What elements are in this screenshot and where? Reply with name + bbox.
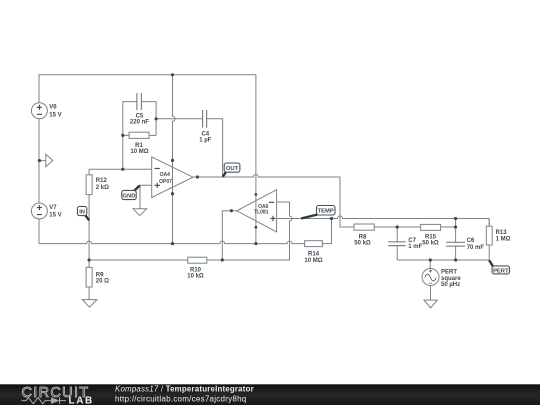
svg-text:R10: R10 bbox=[190, 268, 202, 274]
svg-text:http://circuitlab.com/ces7ajcd: http://circuitlab.com/ces7ajcdry8hq bbox=[115, 395, 246, 404]
svg-text:50 kΩ: 50 kΩ bbox=[354, 241, 371, 247]
svg-text:R14: R14 bbox=[308, 252, 320, 258]
svg-text:IN: IN bbox=[79, 209, 85, 215]
svg-text:R1: R1 bbox=[135, 143, 143, 149]
svg-text:V6: V6 bbox=[49, 105, 57, 111]
svg-text:square: square bbox=[441, 276, 461, 282]
svg-text:GND: GND bbox=[123, 193, 136, 199]
svg-text:V7: V7 bbox=[49, 205, 57, 211]
svg-text:1 µF: 1 µF bbox=[199, 137, 211, 143]
svg-text:10 kΩ: 10 kΩ bbox=[187, 274, 204, 280]
svg-text:50 µHz: 50 µHz bbox=[441, 282, 460, 288]
svg-text:10 MΩ: 10 MΩ bbox=[304, 258, 322, 264]
svg-text:15 V: 15 V bbox=[49, 112, 61, 118]
svg-text:R13: R13 bbox=[496, 230, 508, 236]
svg-text:PERT: PERT bbox=[493, 268, 509, 274]
svg-text:70 mF: 70 mF bbox=[467, 245, 485, 251]
svg-text:PERT: PERT bbox=[441, 269, 457, 275]
svg-text:LAB: LAB bbox=[69, 396, 94, 405]
svg-text:2 kΩ: 2 kΩ bbox=[96, 185, 109, 191]
svg-text:TEMP: TEMP bbox=[318, 209, 334, 215]
svg-text:C6: C6 bbox=[467, 238, 475, 244]
svg-text:1 MΩ: 1 MΩ bbox=[496, 236, 511, 242]
svg-text:15 V: 15 V bbox=[49, 213, 61, 219]
svg-text:R12: R12 bbox=[96, 178, 108, 184]
svg-text:50 kΩ: 50 kΩ bbox=[422, 241, 439, 247]
svg-text:220 nF: 220 nF bbox=[130, 120, 149, 126]
svg-text:OP07: OP07 bbox=[159, 179, 172, 185]
svg-text:TL081: TL081 bbox=[254, 210, 269, 216]
svg-text:10 MΩ: 10 MΩ bbox=[130, 149, 148, 155]
svg-text:Kompass17 / TemperatureIntegra: Kompass17 / TemperatureIntegrator bbox=[115, 385, 254, 394]
svg-text:20 Ω: 20 Ω bbox=[96, 279, 109, 285]
svg-text:OA4: OA4 bbox=[160, 172, 171, 178]
svg-text:OUT: OUT bbox=[226, 166, 239, 172]
svg-text:1 mF: 1 mF bbox=[408, 244, 422, 250]
